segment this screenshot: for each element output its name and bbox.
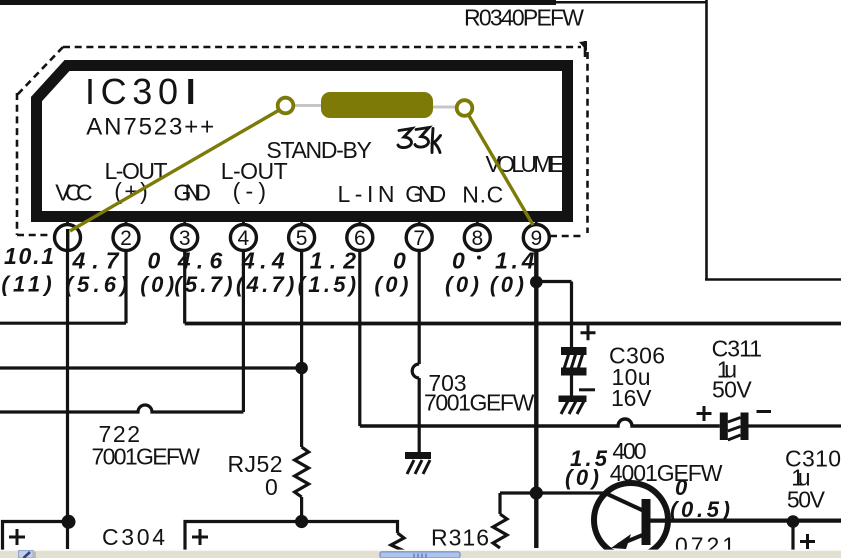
svg-text:(5.7)(4.7)(1.5): (5.7)(4.7)(1.5) bbox=[174, 272, 356, 297]
svg-text:10.1: 10.1 bbox=[4, 243, 54, 269]
svg-text:N.C: N.C bbox=[462, 182, 503, 208]
svg-text:VCC: VCC bbox=[55, 180, 92, 206]
svg-text:4.7: 4.7 bbox=[72, 248, 120, 274]
svg-text:(0): (0) bbox=[374, 272, 408, 297]
svg-text:(0): (0) bbox=[140, 272, 174, 297]
svg-text:R316: R316 bbox=[431, 525, 489, 551]
svg-text:0: 0 bbox=[452, 248, 465, 274]
svg-text:16V: 16V bbox=[611, 385, 652, 411]
svg-text:C304: C304 bbox=[102, 524, 165, 550]
svg-text:8: 8 bbox=[471, 227, 483, 250]
svg-text:0: 0 bbox=[148, 248, 161, 274]
svg-text:(0): (0) bbox=[445, 272, 479, 297]
svg-text:GND: GND bbox=[174, 180, 211, 206]
svg-text:4.6: 4.6 bbox=[177, 248, 223, 274]
svg-text:0: 0 bbox=[265, 474, 278, 500]
svg-text:2: 2 bbox=[120, 227, 132, 250]
svg-text:5: 5 bbox=[296, 227, 308, 250]
svg-text:R0340PEFW: R0340PEFW bbox=[464, 5, 584, 31]
svg-text:(0): (0) bbox=[490, 272, 524, 297]
svg-text:(0): (0) bbox=[565, 465, 599, 490]
svg-text:0: 0 bbox=[393, 248, 406, 274]
svg-text:GND: GND bbox=[405, 181, 446, 207]
svg-text:L-OUT: L-OUT bbox=[221, 158, 288, 184]
svg-text:7001GEFW: 7001GEFW bbox=[424, 390, 535, 416]
svg-text:50V: 50V bbox=[787, 487, 826, 513]
svg-text:4.4: 4.4 bbox=[241, 248, 285, 274]
svg-text:(-): (-) bbox=[233, 178, 267, 204]
svg-text:(+): (+) bbox=[114, 178, 148, 204]
svg-text:4001GEFW: 4001GEFW bbox=[610, 460, 723, 486]
svg-text:7: 7 bbox=[413, 227, 425, 250]
svg-text:L-IN: L-IN bbox=[338, 181, 395, 207]
svg-text:AN7523++: AN7523++ bbox=[86, 114, 214, 141]
svg-text:50V: 50V bbox=[712, 377, 752, 403]
svg-text:7001GEFW: 7001GEFW bbox=[92, 444, 201, 470]
svg-text:1.2: 1.2 bbox=[310, 248, 357, 274]
svg-text:1.4: 1.4 bbox=[495, 248, 535, 274]
